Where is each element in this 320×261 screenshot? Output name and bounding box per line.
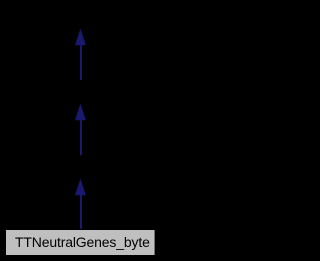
node border band (opaque black)	[0, 227, 161, 261]
svg-text:TTNeutralGenes_byte: TTNeutralGenes_byte	[15, 234, 150, 250]
inheritance arrow 1 (top)	[75, 29, 86, 81]
node box TTNeutralGenes_byte	[6, 230, 155, 255]
inheritance arrow 3 (bottom)	[75, 179, 86, 229]
inheritance arrow 2 (middle)	[75, 104, 86, 156]
